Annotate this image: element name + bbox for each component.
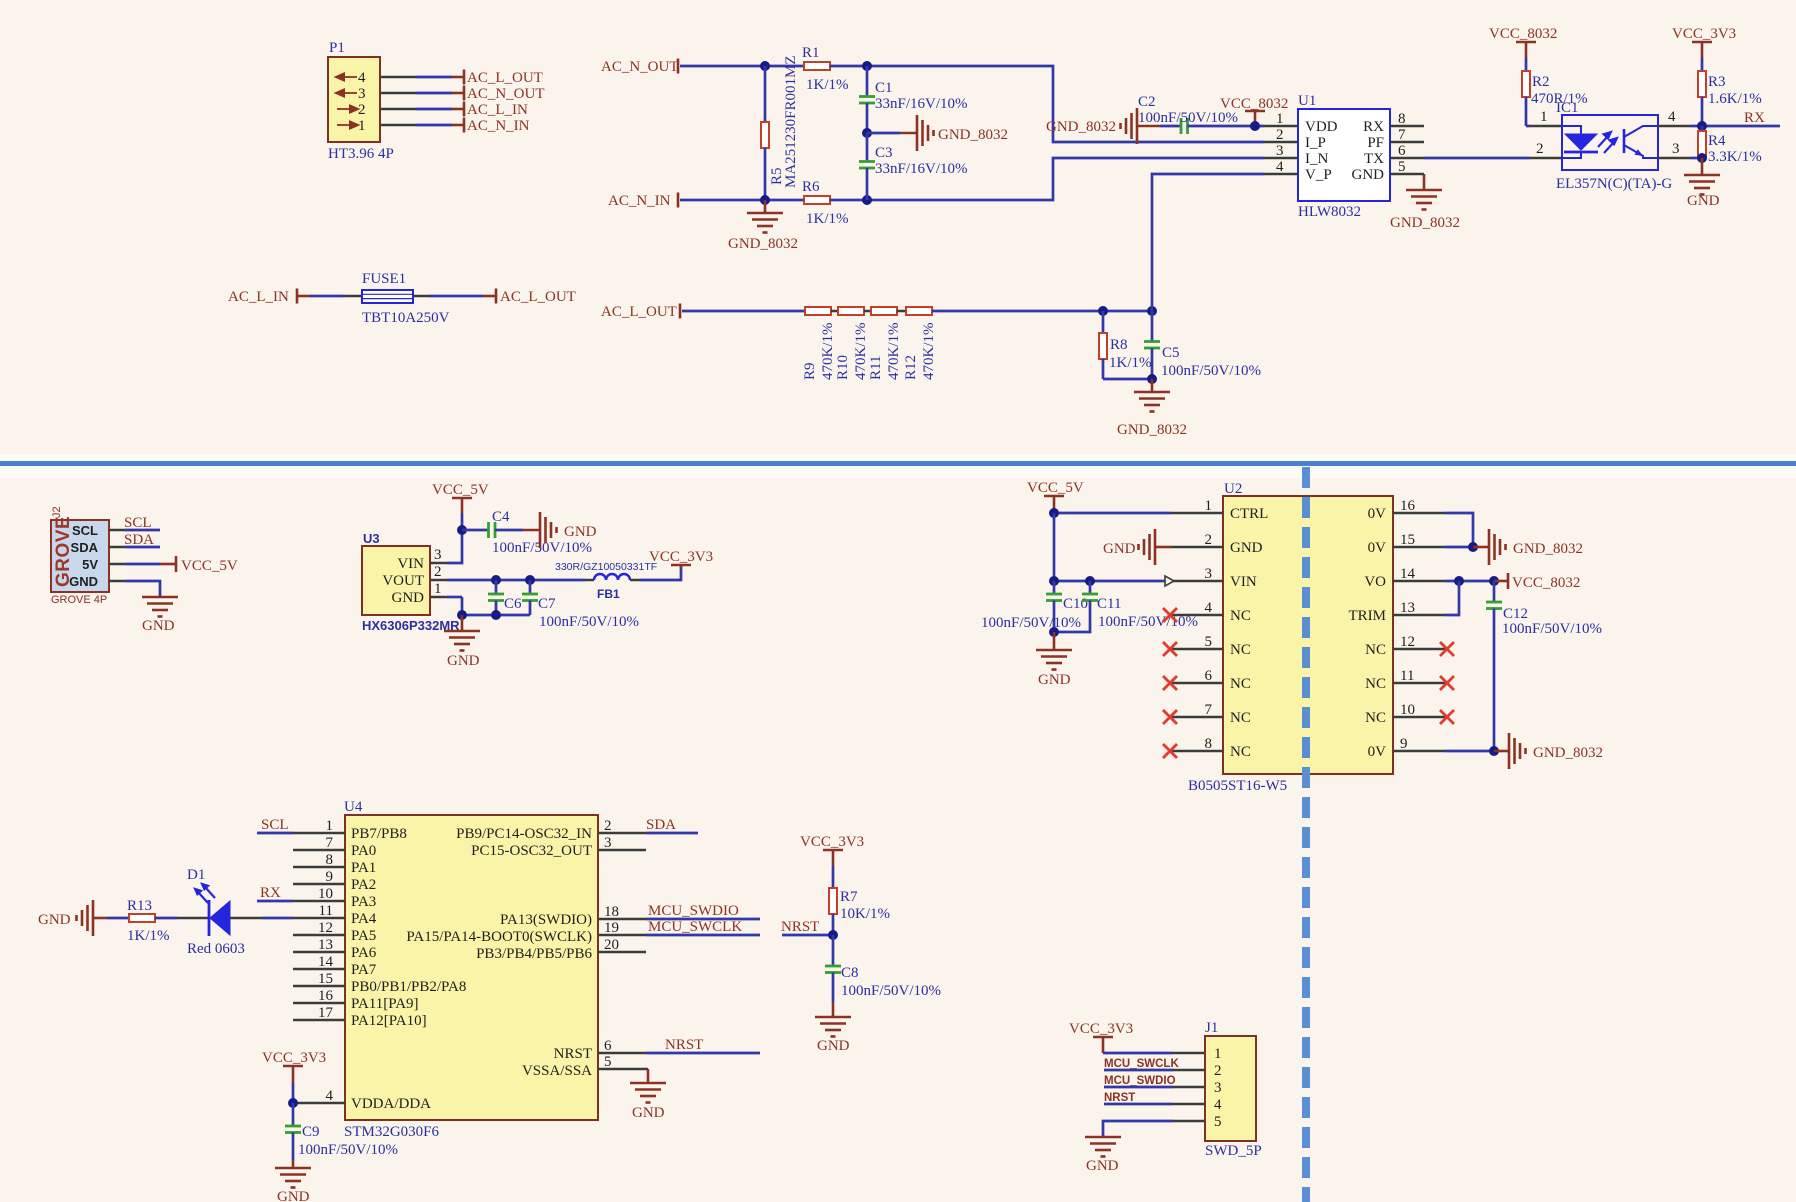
led D1 [177, 867, 293, 957]
svg-text:13: 13 [1400, 600, 1415, 616]
svg-text:7: 7 [1398, 127, 1406, 143]
wire VCC_5V branch to U2 VIN [1054, 513, 1174, 586]
svg-text:1: 1 [1214, 1046, 1222, 1062]
svg-text:VCC_3V3: VCC_3V3 [262, 1050, 326, 1066]
resistor R1 [802, 45, 849, 93]
svg-text:VOUT: VOUT [382, 573, 424, 589]
ground GND below C9 [275, 1160, 311, 1202]
svg-text:MCU_SWCLK: MCU_SWCLK [1104, 1058, 1179, 1070]
capacitor C6 [488, 580, 522, 615]
op-amp U1 HLW8032 [1264, 93, 1424, 220]
junction [862, 61, 872, 71]
wire VCC_3V3 to J1 pin1 [1103, 1052, 1205, 1055]
svg-text:AC_L_OUT: AC_L_OUT [500, 289, 576, 305]
svg-text:RX: RX [1363, 119, 1384, 135]
svg-text:IC1: IC1 [1556, 100, 1579, 116]
svg-text:33nF/16V/10%: 33nF/16V/10% [875, 96, 968, 112]
wire MCU_SWDIO net [646, 903, 760, 919]
svg-text:U2: U2 [1224, 481, 1242, 497]
svg-text:CTRL: CTRL [1230, 506, 1268, 522]
resistor R3 [1698, 58, 1762, 126]
svg-text:GND: GND [817, 1038, 850, 1054]
junction [760, 195, 770, 205]
wire R11-R12 [897, 310, 906, 313]
svg-text:AC_N_IN: AC_N_IN [608, 193, 671, 209]
svg-text:U1: U1 [1298, 93, 1316, 109]
svg-text:6: 6 [604, 1038, 612, 1054]
ground GND_8032 at U2 pin15 [1473, 529, 1583, 565]
resistor R4 [1698, 126, 1762, 165]
resistor R12 [903, 307, 937, 380]
svg-text:C3: C3 [875, 145, 893, 161]
port AC_N_IN [608, 193, 678, 210]
junction [1049, 576, 1059, 586]
svg-text:R2: R2 [1532, 74, 1550, 90]
svg-text:AC_L_OUT: AC_L_OUT [467, 70, 543, 86]
svg-text:C5: C5 [1162, 345, 1180, 361]
port AC_N_OUT (P1.3) [464, 86, 545, 103]
svg-text:VIN: VIN [1230, 574, 1257, 590]
junction [862, 195, 872, 205]
svg-text:1K/1%: 1K/1% [127, 928, 170, 944]
svg-text:GND_8032: GND_8032 [1513, 541, 1583, 557]
power VCC_3V3 at J1 [1069, 1021, 1133, 1053]
P1 pin2 arrow [337, 106, 358, 113]
svg-text:GND: GND [1103, 541, 1136, 557]
junction [1697, 153, 1707, 163]
capacitor C2 [1137, 94, 1264, 134]
svg-text:11: 11 [1400, 668, 1414, 684]
ground GND right of C4 [540, 512, 597, 548]
svg-text:11: 11 [319, 903, 333, 919]
svg-text:AC_L_IN: AC_L_IN [467, 102, 528, 118]
wire R6 to U1 pin3 [830, 158, 1264, 200]
svg-text:VCC_3V3: VCC_3V3 [800, 834, 864, 850]
svg-text:C9: C9 [302, 1124, 320, 1140]
capacitor C4 [462, 509, 592, 556]
svg-text:12: 12 [1400, 634, 1415, 650]
svg-text:GND: GND [1038, 672, 1071, 688]
wire U1 TX to IC1 pin2 [1424, 157, 1562, 160]
no-connect X pin6 [1163, 676, 1177, 690]
svg-text:VCC_5V: VCC_5V [432, 482, 489, 498]
svg-text:Red 0603: Red 0603 [187, 941, 245, 957]
svg-text:J1: J1 [1205, 1020, 1218, 1036]
IC1 internal LED [1562, 126, 1598, 158]
svg-text:TRIM: TRIM [1349, 608, 1387, 624]
svg-text:470K/1%: 470K/1% [886, 323, 902, 381]
svg-text:RX: RX [1744, 110, 1765, 126]
svg-text:4: 4 [358, 70, 366, 86]
svg-text:NC: NC [1230, 676, 1251, 692]
junction [1049, 627, 1059, 637]
capacitor C9 [285, 1103, 398, 1160]
wire J1 pin5 to GND [1103, 1121, 1205, 1137]
svg-text:SDA: SDA [646, 817, 676, 833]
power VCC_3V3 at U4 VDDA [262, 1050, 326, 1103]
capacitor C12 [1486, 581, 1602, 751]
svg-text:17: 17 [318, 1005, 334, 1021]
svg-text:C7: C7 [538, 596, 556, 612]
svg-text:GND_8032: GND_8032 [1117, 422, 1187, 438]
svg-text:VSSA/SSA: VSSA/SSA [522, 1063, 592, 1079]
ground GND below C8 [815, 1002, 851, 1054]
wire AC_L_OUT to R9 [682, 310, 805, 313]
svg-text:GND_8032: GND_8032 [1533, 745, 1603, 761]
junction [1147, 374, 1157, 384]
capacitor C8 [825, 935, 941, 1002]
power VCC_8032 [1220, 96, 1288, 126]
svg-text:PB3/PB4/PB5/PB6: PB3/PB4/PB5/PB6 [476, 946, 592, 962]
wire P1.3 [380, 92, 464, 95]
svg-text:NC: NC [1230, 710, 1251, 726]
IC1 phototransistor [1624, 126, 1658, 158]
port AC_L_IN (P1.2) [464, 102, 528, 119]
junction [1147, 306, 1157, 316]
svg-text:3.3K/1%: 3.3K/1% [1708, 149, 1762, 165]
capacitor C1 [859, 66, 968, 133]
svg-text:3: 3 [1214, 1080, 1222, 1096]
ground GND below C10 [1036, 632, 1072, 688]
svg-text:470K/1%: 470K/1% [921, 323, 937, 381]
svg-text:100nF/50V/10%: 100nF/50V/10% [492, 540, 592, 556]
isolation boundary dashed line [1302, 467, 1310, 1202]
wire R12 to R8/C5 [932, 310, 1152, 313]
svg-text:330R/GZ10050331TF: 330R/GZ10050331TF [555, 561, 657, 573]
junction [1250, 121, 1260, 131]
no-connect X pin4 [1163, 608, 1177, 622]
svg-text:VCC_5V: VCC_5V [1027, 480, 1084, 496]
P1 pin3 arrow [336, 90, 357, 97]
svg-text:R10: R10 [835, 355, 851, 380]
svg-text:GND: GND [1086, 1158, 1119, 1174]
svg-text:C6: C6 [504, 596, 522, 612]
wire J2 SCL [109, 515, 160, 531]
no-connect X pin5 [1163, 642, 1177, 656]
svg-text:PA15/PA14-BOOT0(SWCLK): PA15/PA14-BOOT0(SWCLK) [406, 929, 592, 945]
svg-text:U4: U4 [344, 799, 363, 815]
svg-text:100nF/50V/10%: 100nF/50V/10% [1502, 621, 1602, 637]
svg-text:AC_N_IN: AC_N_IN [467, 118, 530, 134]
svg-text:PA3: PA3 [351, 894, 376, 910]
wire to GND_8032 [867, 132, 917, 135]
wire FUSE1 to AC_L_OUT [413, 295, 496, 298]
svg-text:PA5: PA5 [351, 928, 376, 944]
port AC_L_OUT (fuse output) [496, 289, 576, 306]
IC1 light arrows [1598, 132, 1617, 153]
port VCC_5V at J2 [176, 556, 238, 574]
port AC_L_OUT (sense) [601, 304, 680, 321]
svg-text:5: 5 [1398, 159, 1406, 175]
port AC_L_OUT (P1.4) [464, 70, 543, 87]
ground GND_8032 (sideways) [917, 115, 1008, 151]
svg-text:GND: GND [1230, 540, 1263, 556]
svg-text:R8: R8 [1110, 337, 1128, 353]
svg-text:VCC_5V: VCC_5V [181, 558, 238, 574]
wire AC_N_OUT to R1 [680, 65, 804, 68]
resistor R7 [829, 866, 890, 935]
svg-text:R12: R12 [903, 355, 919, 380]
svg-text:1: 1 [326, 818, 334, 834]
ground GND at J2 [142, 597, 178, 634]
junction [1085, 576, 1095, 586]
svg-text:3: 3 [434, 547, 442, 563]
ground GND at J1 [1085, 1137, 1121, 1174]
svg-text:GND_8032: GND_8032 [938, 127, 1008, 143]
svg-text:7: 7 [1205, 702, 1213, 718]
wire IC1 pin4 to RX [1658, 125, 1702, 128]
svg-text:NC: NC [1365, 710, 1386, 726]
svg-text:PA13(SWDIO): PA13(SWDIO) [500, 912, 592, 928]
ground GND at D1 [38, 900, 107, 936]
svg-text:33nF/16V/10%: 33nF/16V/10% [875, 161, 968, 177]
svg-text:B0505ST16-W5: B0505ST16-W5 [1188, 778, 1287, 794]
svg-text:4: 4 [1205, 600, 1213, 616]
svg-text:13: 13 [318, 937, 333, 953]
ground GND below U3 [444, 615, 480, 669]
ground GND_8032 below C5 [1117, 379, 1187, 438]
svg-text:PB0/PB1/PB2/PA8: PB0/PB1/PB2/PA8 [351, 979, 466, 995]
ground GND_8032 (left of C2) [1046, 108, 1137, 144]
wire P1.1 [380, 124, 464, 127]
svg-text:GND: GND [632, 1105, 665, 1121]
svg-text:C10: C10 [1063, 596, 1088, 612]
svg-text:5: 5 [604, 1054, 612, 1070]
no-connect X pin8 [1163, 744, 1177, 758]
svg-text:GND: GND [392, 590, 425, 606]
svg-text:100nF/50V/10%: 100nF/50V/10% [1161, 363, 1261, 379]
svg-text:1K/1%: 1K/1% [806, 211, 849, 227]
svg-text:R13: R13 [127, 898, 152, 914]
svg-text:15: 15 [1400, 532, 1415, 548]
svg-text:1: 1 [1540, 109, 1548, 125]
power VCC_5V above U2 [1027, 480, 1084, 513]
svg-text:TX: TX [1364, 151, 1384, 167]
port AC_L_IN (fuse input) [228, 289, 297, 306]
svg-text:R3: R3 [1708, 74, 1726, 90]
svg-text:14: 14 [1400, 566, 1416, 582]
svg-text:3: 3 [1672, 141, 1680, 157]
svg-text:C2: C2 [1138, 94, 1156, 110]
junction [525, 575, 535, 585]
junction [1049, 508, 1059, 518]
ground GND at U4 VSSA [630, 1069, 666, 1121]
svg-text:C12: C12 [1503, 606, 1528, 622]
wire MCU_SWCLK at J1 pin2 [1104, 1058, 1205, 1070]
wire J2 SDA [109, 532, 160, 548]
junction [457, 610, 467, 620]
svg-text:2: 2 [358, 102, 366, 118]
ground GND below R4 [1684, 158, 1720, 209]
wire U2 TRIM to VO [1445, 581, 1459, 615]
resistor R10 [835, 307, 869, 380]
svg-text:100nF/50V/10%: 100nF/50V/10% [1098, 614, 1198, 630]
svg-text:U3: U3 [363, 531, 380, 546]
wire R2 to IC1 pin1 [1526, 125, 1562, 128]
wire U2 pin15 [1445, 546, 1473, 549]
svg-text:4: 4 [1668, 109, 1676, 125]
svg-text:R1: R1 [802, 45, 820, 61]
svg-text:GND: GND [38, 912, 71, 928]
connector J1 SWD_5P [1205, 1020, 1262, 1159]
svg-text:C8: C8 [841, 965, 859, 981]
svg-text:SCL: SCL [261, 817, 289, 833]
junction [862, 128, 872, 138]
svg-text:6: 6 [1205, 668, 1213, 684]
svg-text:NRST: NRST [781, 919, 819, 935]
connector J2 GROVE [51, 506, 109, 606]
wire RX net at U4 pin10 [257, 885, 293, 901]
svg-text:P1: P1 [329, 40, 345, 56]
resistor R9 [802, 307, 836, 380]
svg-text:SWD_5P: SWD_5P [1205, 1143, 1262, 1159]
power VCC_8032 above R2 [1489, 26, 1557, 58]
svg-text:2: 2 [434, 564, 442, 580]
svg-text:GROVE 4P: GROVE 4P [51, 594, 107, 606]
optocoupler IC1 EL357N [1536, 100, 1680, 192]
svg-text:GND: GND [1352, 167, 1385, 183]
svg-text:VDDA/DDA: VDDA/DDA [351, 1096, 431, 1112]
ground GND_8032 at U2 pin9 [1494, 733, 1603, 769]
svg-text:5: 5 [1205, 634, 1213, 650]
svg-text:16: 16 [318, 988, 334, 1004]
svg-text:5: 5 [1214, 1114, 1222, 1130]
svg-text:10: 10 [1400, 702, 1415, 718]
ground GND_8032 at U1 pin5 [1390, 174, 1460, 231]
svg-text:3: 3 [604, 835, 612, 851]
dcdc U2 B0505ST16-W5 [1171, 481, 1445, 794]
svg-text:1.6K/1%: 1.6K/1% [1708, 91, 1762, 107]
resistor R13 [107, 898, 177, 944]
svg-text:RX: RX [260, 885, 281, 901]
wire J2 GND [109, 581, 160, 597]
wire P1.4 [380, 76, 464, 79]
svg-text:AC_N_OUT: AC_N_OUT [601, 59, 679, 75]
wire FB1 to VCC_3V3 [640, 566, 681, 580]
svg-text:VCC_8032: VCC_8032 [1220, 96, 1288, 112]
resistor R6 [802, 179, 849, 227]
wire AC_N_IN to R6 [680, 199, 804, 202]
port AC_N_IN (P1.1) [464, 118, 530, 135]
P1 pin4 arrow [336, 74, 357, 81]
svg-text:19: 19 [604, 920, 619, 936]
svg-text:PA7: PA7 [351, 962, 377, 978]
wire MCU_SWDIO at J1 pin3 [1104, 1075, 1205, 1087]
no-connect X pin11 [1440, 676, 1454, 690]
svg-text:0V: 0V [1368, 506, 1387, 522]
svg-text:100nF/50V/10%: 100nF/50V/10% [981, 615, 1081, 631]
svg-text:I_N: I_N [1305, 151, 1328, 167]
svg-text:MCU_SWDIO: MCU_SWDIO [648, 903, 739, 919]
svg-text:1: 1 [1276, 111, 1284, 127]
svg-text:HT3.96 4P: HT3.96 4P [328, 146, 394, 162]
svg-text:100nF/50V/10%: 100nF/50V/10% [298, 1142, 398, 1158]
svg-text:PF: PF [1367, 135, 1384, 151]
fuse FUSE1 [362, 271, 450, 326]
capacitor C11 [1054, 581, 1198, 632]
svg-text:SDA: SDA [124, 532, 154, 548]
svg-text:NRST: NRST [1104, 1092, 1135, 1104]
wire U2 pin16 to pin15 [1445, 513, 1473, 547]
svg-text:9: 9 [326, 869, 334, 885]
svg-text:SCL: SCL [124, 515, 152, 531]
svg-text:2: 2 [1536, 141, 1544, 157]
svg-text:NRST: NRST [665, 1037, 703, 1053]
svg-text:PB9/PC14-OSC32_IN: PB9/PC14-OSC32_IN [456, 826, 592, 842]
wire SCL net at U4 pin1 [257, 817, 293, 833]
svg-text:NRST: NRST [554, 1046, 592, 1062]
capacitor C5 [1144, 311, 1261, 379]
svg-text:8: 8 [1398, 111, 1406, 127]
svg-text:FB1: FB1 [597, 587, 620, 601]
svg-text:GND: GND [277, 1189, 310, 1202]
svg-text:V_P: V_P [1305, 167, 1332, 183]
no-connect X pin12 [1440, 642, 1454, 656]
junction [828, 930, 838, 940]
junction [760, 61, 770, 71]
svg-text:VDD: VDD [1305, 119, 1338, 135]
power VCC_3V3 above R3 [1672, 26, 1736, 58]
svg-text:AC_L_IN: AC_L_IN [228, 289, 289, 305]
resistor R5 [761, 55, 799, 200]
svg-text:STM32G030F6: STM32G030F6 [344, 1124, 440, 1140]
svg-text:PA1: PA1 [351, 860, 376, 876]
svg-text:MCU_SWCLK: MCU_SWCLK [648, 919, 742, 935]
svg-text:NC: NC [1230, 608, 1251, 624]
svg-text:VCC_3V3: VCC_3V3 [1069, 1021, 1133, 1037]
svg-text:VCC_8032: VCC_8032 [1489, 26, 1557, 42]
svg-text:GND: GND [142, 618, 175, 634]
svg-text:6: 6 [1398, 143, 1406, 159]
svg-text:GND_8032: GND_8032 [728, 236, 798, 252]
wire U2 VO [1445, 580, 1494, 583]
svg-text:TBT10A250V: TBT10A250V [362, 310, 450, 326]
svg-text:PA2: PA2 [351, 877, 376, 893]
regulator U3 HX6306P332MR [362, 531, 460, 633]
wire U3 GND row [447, 597, 530, 615]
svg-text:470K/1%: 470K/1% [820, 323, 836, 381]
svg-text:100nF/50V/10%: 100nF/50V/10% [1138, 110, 1238, 126]
svg-text:AC_L_OUT: AC_L_OUT [601, 304, 677, 320]
wire MCU_SWCLK net [646, 919, 760, 935]
junction [1489, 576, 1499, 586]
svg-text:4: 4 [1214, 1097, 1222, 1113]
svg-text:GND: GND [447, 653, 480, 669]
svg-text:GND: GND [69, 574, 98, 589]
ground GND at U2 pin2 [1103, 529, 1171, 565]
svg-text:16: 16 [1400, 498, 1416, 514]
P1 pin1 arrow [337, 122, 358, 129]
capacitor C10 [981, 581, 1088, 632]
svg-text:100nF/50V/10%: 100nF/50V/10% [539, 614, 639, 630]
junction [457, 525, 467, 535]
wire U2 pin9 [1445, 750, 1494, 753]
svg-text:PC15-OSC32_OUT: PC15-OSC32_OUT [471, 843, 592, 859]
svg-text:PA0: PA0 [351, 843, 376, 859]
svg-text:0V: 0V [1368, 744, 1387, 760]
wire SDA net at U4 pin2 [646, 817, 698, 833]
svg-text:NC: NC [1230, 744, 1251, 760]
junction [1697, 121, 1707, 131]
svg-text:1: 1 [1205, 498, 1213, 514]
svg-text:MA251230FR001MZ: MA251230FR001MZ [783, 55, 799, 188]
svg-text:1K/1%: 1K/1% [1109, 355, 1152, 371]
connector P1 [328, 40, 380, 142]
wire IC1 pin3 [1658, 157, 1702, 160]
svg-text:8: 8 [326, 852, 334, 868]
svg-text:R9: R9 [802, 362, 818, 380]
resistor R8 [1099, 311, 1152, 379]
